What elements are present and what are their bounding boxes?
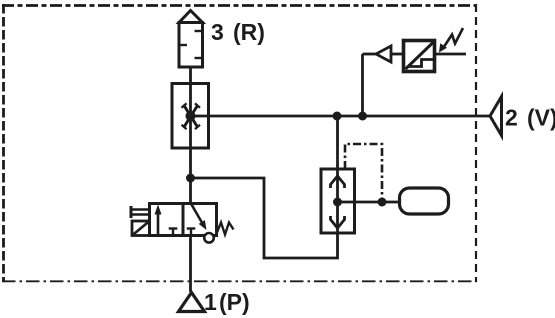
svg-text:2: 2 (505, 104, 518, 130)
svg-text:3: 3 (211, 19, 224, 45)
svg-text:(P): (P) (219, 289, 250, 315)
svg-text:1: 1 (204, 289, 217, 315)
svg-text:(V): (V) (527, 104, 555, 130)
svg-text:(R): (R) (233, 19, 265, 45)
